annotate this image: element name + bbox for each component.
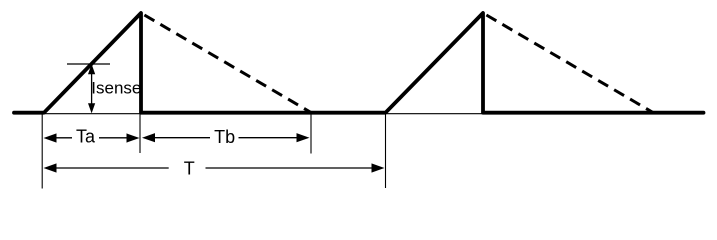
svg-text:Isense: Isense — [91, 79, 141, 98]
svg-text:T: T — [184, 159, 195, 179]
svg-text:Ta: Ta — [76, 127, 96, 147]
svg-text:Tb: Tb — [214, 127, 235, 147]
